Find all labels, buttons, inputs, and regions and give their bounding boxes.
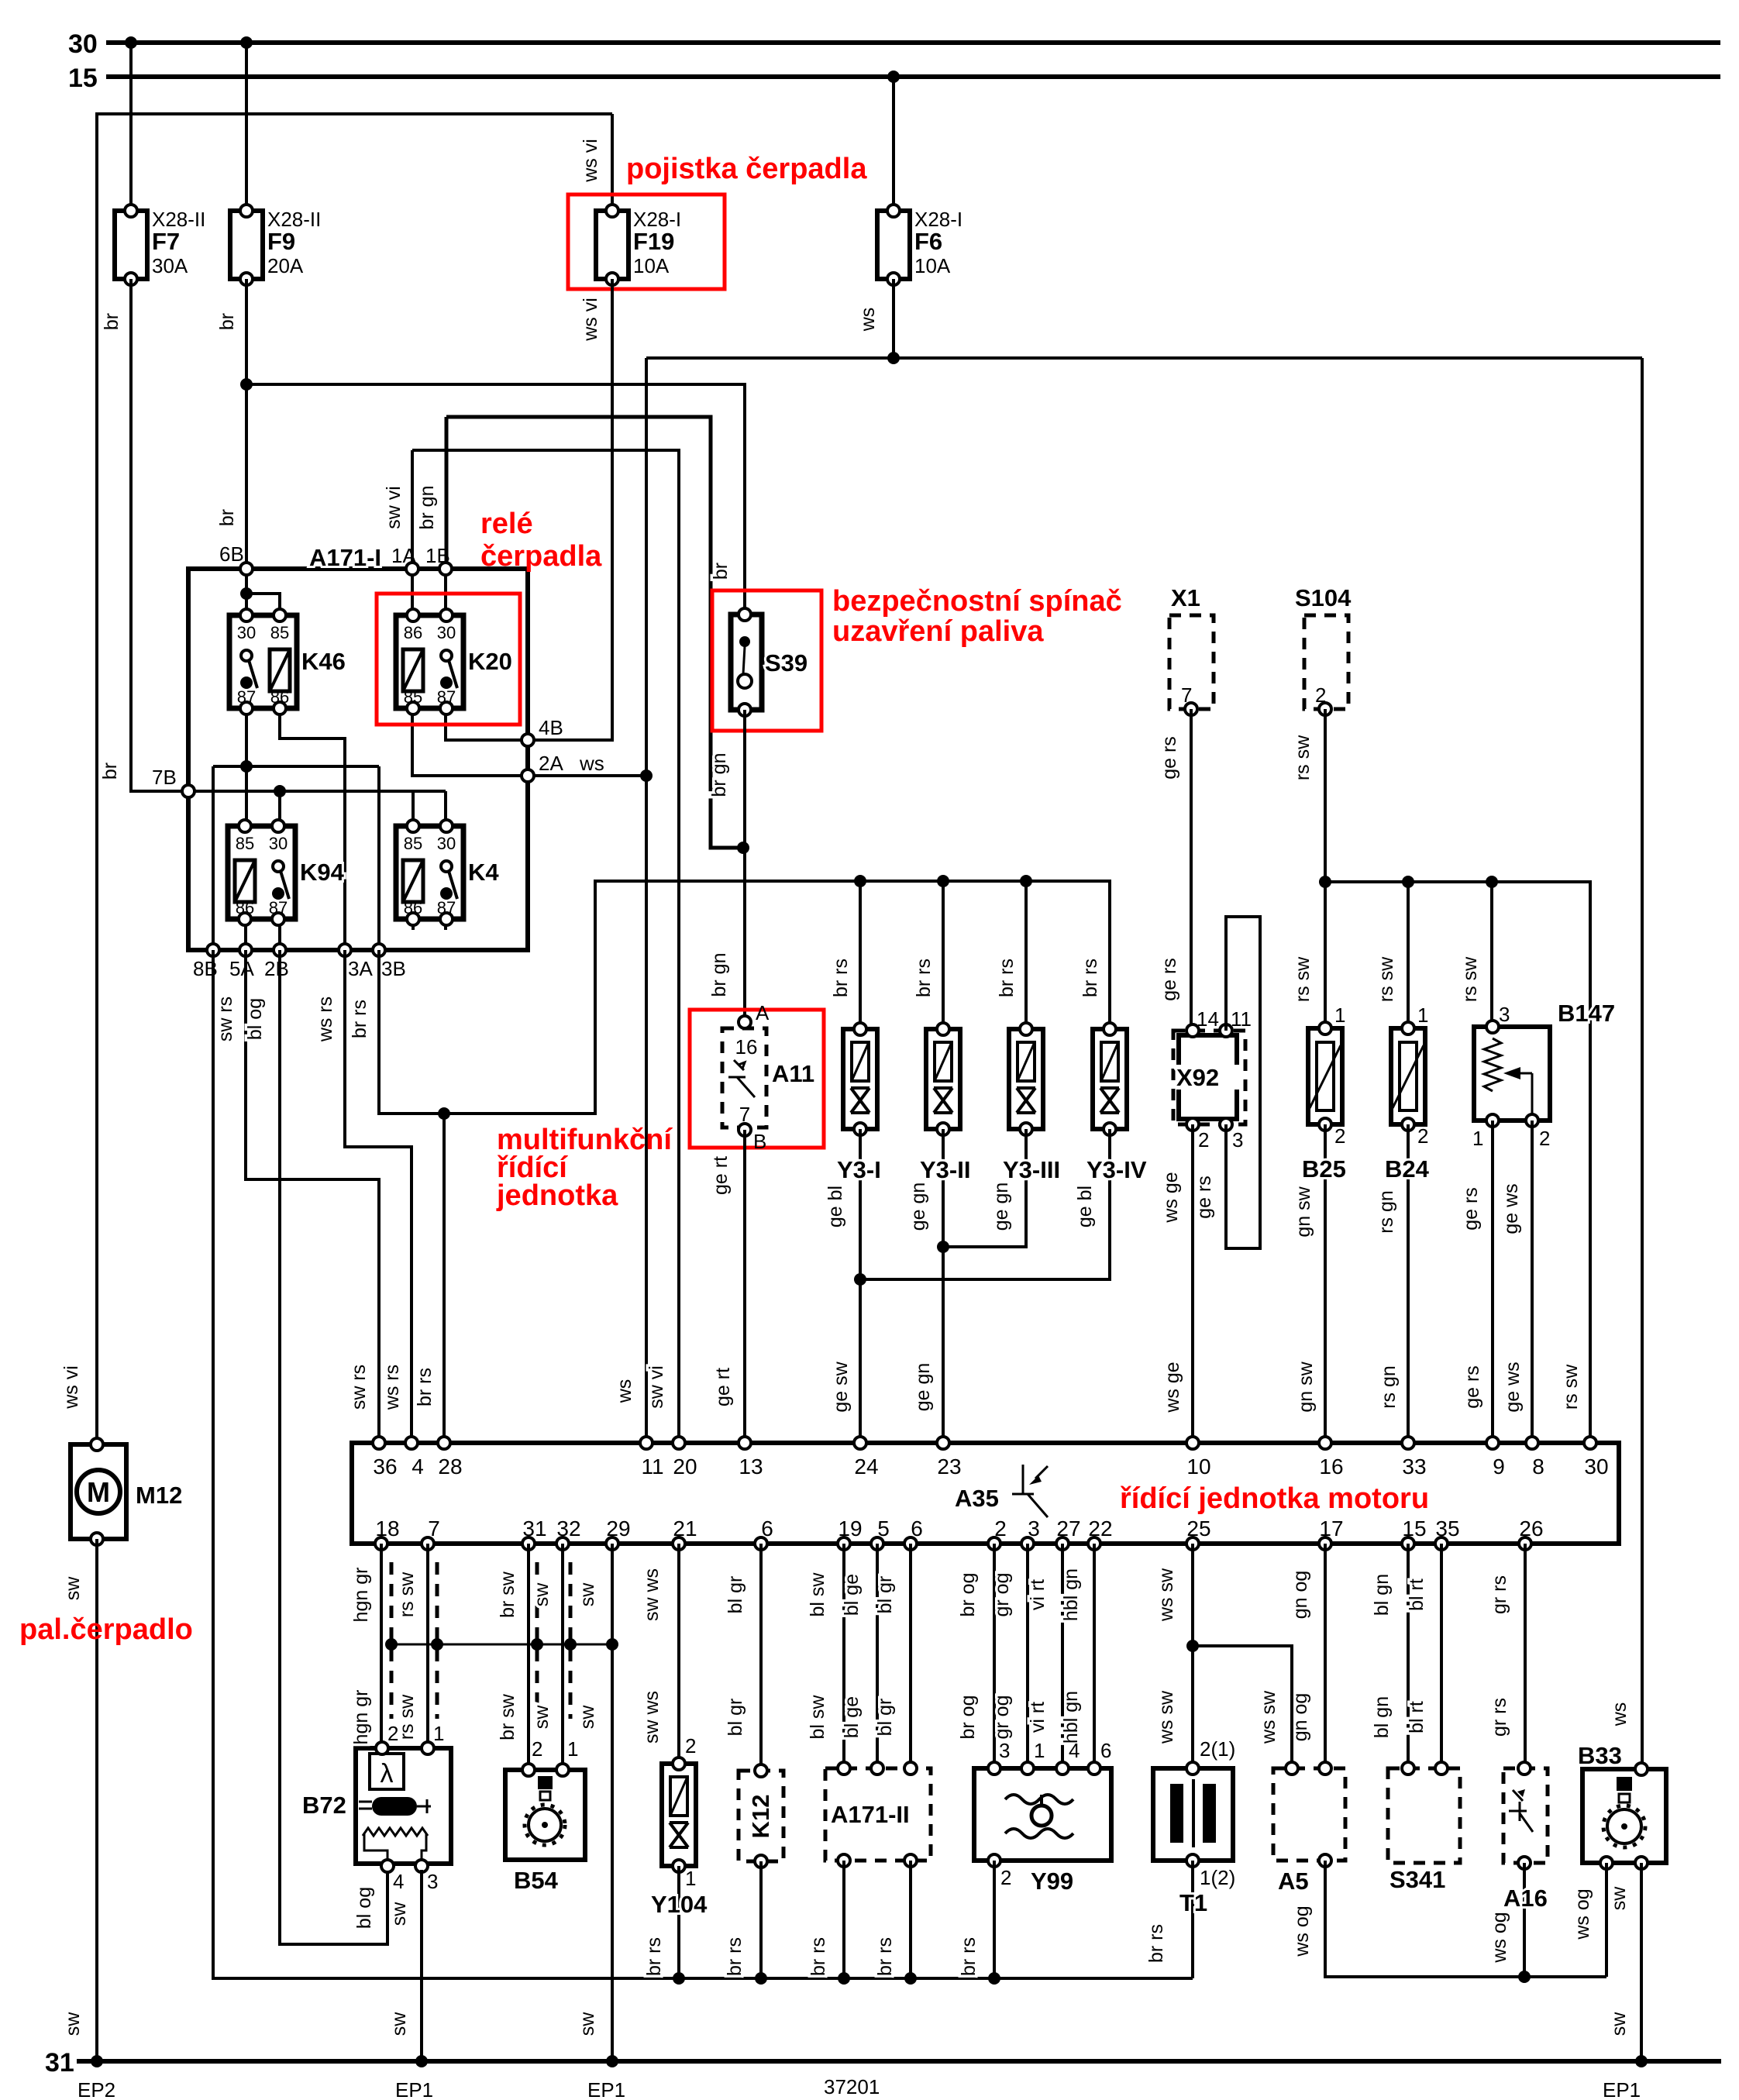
pin 2B: [274, 944, 286, 956]
svg-text:36: 36: [373, 1455, 397, 1479]
svg-text:3: 3: [427, 1870, 438, 1893]
svg-text:hgn gr: hgn gr: [350, 1690, 372, 1745]
svg-text:br rs: br rs: [830, 959, 852, 997]
svg-text:ge gn: ge gn: [907, 1183, 929, 1231]
wire ws sw branch to A5: [1193, 1646, 1292, 1764]
svg-text:3B: 3B: [381, 957, 406, 980]
wire ws vi F19 to M12: [97, 114, 612, 1444]
svg-text:br: br: [216, 509, 238, 526]
wire ge bl Y3-IV link: [860, 1129, 1110, 1279]
wire bl gr ECU6 to A171-II: [909, 1544, 912, 1764]
svg-text:2: 2: [685, 1734, 696, 1757]
svg-text:uzavření paliva: uzavření paliva: [832, 615, 1044, 648]
wire bl gr ECU6 to K12: [759, 1544, 763, 1766]
svg-text:ge bl: ge bl: [825, 1186, 846, 1227]
svg-text:br rs: br rs: [349, 1000, 370, 1038]
junction shield 18: [385, 1638, 398, 1651]
unit A5: [1273, 1768, 1345, 1861]
wire K94-86 to 5A: [244, 919, 247, 950]
svg-text:ws vi: ws vi: [580, 139, 601, 183]
svg-text:2B: 2B: [264, 957, 289, 980]
pin 18 ECU bottom: [375, 1537, 387, 1550]
pin 10 ECU top: [1186, 1437, 1199, 1449]
svg-text:rs gn: rs gn: [1376, 1190, 1397, 1234]
svg-text:gr rs: gr rs: [1489, 1698, 1510, 1737]
shield wire pin 18: [390, 1562, 394, 1719]
svg-text:ws: ws: [857, 308, 879, 332]
bus 30: [68, 29, 1720, 59]
wire rail15 to F6: [892, 77, 895, 211]
svg-text:6: 6: [911, 1516, 923, 1541]
svg-text:br rs: br rs: [414, 1368, 436, 1406]
svg-text:ws ge: ws ge: [1162, 1362, 1183, 1413]
pin 6B: [240, 563, 253, 575]
relay K46: [229, 609, 297, 714]
pin 23 ECU top: [937, 1437, 949, 1449]
svg-text:15: 15: [1402, 1516, 1426, 1541]
svg-text:8: 8: [1532, 1455, 1544, 1479]
svg-text:F6: F6: [914, 228, 942, 255]
svg-text:M: M: [87, 1476, 110, 1508]
svg-text:br rs: br rs: [913, 959, 935, 997]
wire br rs 3B distribution: [379, 881, 1110, 1114]
wire K46-86 to 3A: [280, 708, 345, 950]
svg-text:rs sw: rs sw: [1292, 956, 1314, 1002]
svg-text:sw: sw: [577, 2012, 598, 2036]
wire sw ws ECU21 to Y104: [677, 1544, 680, 1759]
svg-text:ge gn: ge gn: [912, 1363, 934, 1412]
wire br og ECU2 to Y99 pin 3: [993, 1544, 996, 1764]
svg-text:1A: 1A: [391, 544, 416, 567]
svg-text:ge ws: ge ws: [1502, 1362, 1524, 1412]
relay K4: [396, 820, 463, 925]
svg-text:B54: B54: [514, 1867, 559, 1894]
svg-text:ge rt: ge rt: [712, 1368, 734, 1406]
svg-text:rs sw: rs sw: [396, 1694, 418, 1740]
svg-text:Y3-IV: Y3-IV: [1086, 1156, 1147, 1183]
svg-text:8B: 8B: [193, 957, 218, 980]
svg-text:EP1: EP1: [395, 2078, 433, 2100]
svg-text:1: 1: [433, 1722, 444, 1745]
bus 31: [45, 2048, 1721, 2078]
pin 17 ECU bottom: [1319, 1537, 1331, 1550]
svg-text:16: 16: [1319, 1455, 1343, 1479]
wire br gn 1B to S39 node: [446, 417, 743, 848]
svg-text:9: 9: [1493, 1455, 1505, 1479]
pin 19 ECU bottom: [838, 1537, 850, 1550]
svg-text:bl gr: bl gr: [725, 1576, 746, 1614]
svg-text:sw rs: sw rs: [348, 1365, 370, 1410]
svg-text:ws rs: ws rs: [381, 1365, 403, 1410]
svg-text:20A: 20A: [267, 254, 304, 277]
valve Y104: [662, 1757, 696, 1872]
junction 7B/K94-30: [274, 785, 286, 797]
wire ws to ECU pin 11: [645, 358, 648, 1443]
svg-text:3: 3: [1232, 1128, 1243, 1152]
svg-text:bl ge: bl ge: [841, 1574, 863, 1616]
red frame bezpecnostni spinac: [712, 590, 821, 731]
wire ge rs X92 pin3 to pin11 loop: [1226, 917, 1260, 1248]
svg-text:1: 1: [1417, 1004, 1428, 1027]
junction ws sw branch: [1186, 1640, 1199, 1652]
svg-text:ge rs: ge rs: [1193, 1176, 1215, 1219]
wire ws rs 3A to ECU pin 4: [345, 950, 412, 1443]
svg-text:bl og: bl og: [244, 998, 266, 1040]
wire bl ge ECU5 to A171-II: [876, 1544, 879, 1764]
svg-text:rs sw: rs sw: [1459, 956, 1481, 1002]
injector Y3-II: [926, 1023, 960, 1135]
connector X1: [1169, 615, 1214, 709]
svg-text:X1: X1: [1171, 584, 1200, 611]
svg-text:30: 30: [1584, 1455, 1608, 1479]
pin 5A: [239, 944, 252, 956]
svg-text:ws og: ws og: [1572, 1888, 1593, 1940]
svg-text:ws rs: ws rs: [315, 997, 336, 1042]
svg-text:A5: A5: [1278, 1868, 1309, 1895]
svg-text:sw rs: sw rs: [215, 997, 236, 1041]
svg-text:37201: 37201: [824, 2075, 880, 2098]
pin 4 ECU top: [405, 1437, 418, 1449]
svg-text:31: 31: [45, 2048, 74, 2078]
wire br rs to Y3-II: [942, 881, 945, 1029]
junction Y3-II/Y3-III: [937, 1241, 949, 1253]
pin 7 ECU bottom: [422, 1537, 434, 1550]
pin 6 ECU bottom: [755, 1537, 767, 1550]
sensor B147: [1474, 1021, 1550, 1127]
connector S104: [1304, 615, 1348, 709]
pin 25 ECU bottom: [1186, 1537, 1199, 1550]
svg-text:λ: λ: [381, 1759, 394, 1788]
svg-text:bl gn: bl gn: [1371, 1696, 1393, 1738]
svg-text:ws: ws: [1609, 1702, 1631, 1727]
pin 30 ECU top: [1584, 1437, 1596, 1449]
svg-text:relé: relé: [480, 508, 533, 540]
svg-text:br og: br og: [957, 1573, 979, 1617]
svg-text:bl gr: bl gr: [874, 1576, 896, 1614]
stub K4-86: [412, 919, 415, 930]
svg-text:sw: sw: [531, 1582, 553, 1607]
junction br rs A171-II left: [838, 1972, 850, 1985]
svg-text:32: 32: [556, 1516, 580, 1541]
svg-text:rs sw: rs sw: [1292, 735, 1314, 780]
wire br rs Y99 to ground bus: [993, 1861, 996, 1978]
junction shield 7: [431, 1638, 443, 1651]
shield collector bus: [391, 1644, 612, 1646]
svg-text:35: 35: [1435, 1516, 1459, 1541]
wire rs sw S104 to B25: [1324, 709, 1327, 1028]
svg-text:S341: S341: [1389, 1866, 1445, 1893]
svg-text:bl gn: bl gn: [1371, 1574, 1393, 1616]
svg-text:T1: T1: [1179, 1889, 1207, 1916]
svg-text:bezpečnostní spínač: bezpečnostní spínač: [832, 585, 1122, 618]
wire sw ECU29 to bus 31: [611, 1544, 614, 2061]
wire gr rs ECU26 to A16: [1524, 1544, 1527, 1764]
svg-text:br rs: br rs: [1080, 959, 1101, 997]
svg-text:gn og: gn og: [1290, 1571, 1311, 1620]
svg-text:F7: F7: [152, 228, 180, 255]
svg-text:30: 30: [437, 623, 456, 642]
junction br rs Y99: [988, 1972, 1000, 1985]
svg-text:S39: S39: [765, 649, 808, 676]
svg-text:13: 13: [739, 1455, 763, 1479]
svg-text:11: 11: [641, 1455, 663, 1479]
wire F19 ws vi to pin 4B: [531, 279, 612, 740]
fuse F9 20A: [230, 205, 263, 285]
wire 1A up: [411, 450, 414, 569]
junction br rs Y104: [673, 1972, 685, 1985]
svg-text:30: 30: [237, 623, 256, 642]
pin 24 ECU top: [854, 1437, 866, 1449]
svg-text:EP1: EP1: [587, 2078, 625, 2100]
svg-text:86: 86: [404, 898, 422, 917]
svg-text:br: br: [99, 763, 121, 780]
svg-text:X92: X92: [1176, 1064, 1219, 1091]
fuse F19 10A: [596, 205, 628, 285]
svg-text:ge rs: ge rs: [1462, 1365, 1483, 1409]
wire 1A to K20-86: [411, 569, 414, 615]
unit A171-II: [825, 1768, 931, 1861]
junction shield 31: [531, 1638, 543, 1651]
wire bl og 2B to B72 pin 4: [280, 950, 387, 1944]
svg-text:br rs: br rs: [996, 959, 1018, 997]
wire rs sw to B24: [1407, 882, 1410, 1028]
svg-text:2: 2: [994, 1516, 1007, 1541]
ignition coil T1: [1153, 1762, 1233, 1867]
junction ws og A16: [1518, 1971, 1531, 1983]
svg-text:1: 1: [685, 1867, 696, 1890]
svg-text:ws: ws: [614, 1379, 635, 1404]
svg-text:gn sw: gn sw: [1293, 1186, 1314, 1237]
svg-text:ge rs: ge rs: [1159, 958, 1180, 1001]
svg-text:20: 20: [673, 1455, 697, 1479]
junction F9/S39 feed: [240, 378, 253, 391]
wire 8B to ground bus br rs: [213, 950, 1193, 1978]
svg-text:rs sw: rs sw: [1560, 1364, 1582, 1410]
svg-text:1B: 1B: [425, 544, 450, 567]
junction 6B split: [240, 587, 253, 600]
svg-text:bl rt: bl rt: [1406, 1701, 1427, 1733]
svg-text:br gn: br gn: [708, 953, 730, 997]
svg-text:B: B: [753, 1130, 766, 1153]
wire K20-87 via 4B: [446, 708, 612, 740]
svg-text:A35: A35: [955, 1485, 999, 1512]
svg-text:86: 86: [236, 898, 254, 917]
svg-text:ge ws: ge ws: [1500, 1183, 1522, 1234]
red frame pojistka cerpadla: [568, 195, 725, 289]
svg-text:2: 2: [1315, 683, 1326, 707]
svg-text:jednotka: jednotka: [496, 1179, 618, 1212]
wire br sw ECU31 to B54 pin 2: [527, 1544, 530, 1765]
junction F6/ws bus: [887, 352, 900, 364]
wire vi rt ECU27 to Y99 pin 4: [1061, 1544, 1064, 1764]
junction rs sw B24: [1402, 876, 1414, 888]
injector Y3-I: [843, 1023, 877, 1135]
wire br rs K12 to ground bus: [759, 1861, 763, 1978]
svg-text:bl sw: bl sw: [807, 1695, 828, 1740]
svg-text:87: 87: [437, 898, 456, 917]
wire rail30 to F9: [245, 43, 248, 211]
wire 6B to K46-30: [245, 569, 248, 615]
sensor B25: [1308, 1022, 1342, 1131]
pin 35 ECU bottom: [1435, 1537, 1448, 1550]
wire sw B33 to bus 31: [1640, 1863, 1643, 2061]
wire ge gn Y3-III link: [943, 1129, 1026, 1247]
svg-text:rs gn: rs gn: [1378, 1365, 1400, 1409]
junction rs sw B147: [1486, 876, 1498, 888]
pin 3A: [339, 944, 351, 956]
svg-text:B147: B147: [1558, 1000, 1615, 1027]
pin 15 ECU bottom: [1402, 1537, 1414, 1550]
svg-text:sw ws: sw ws: [641, 1568, 663, 1621]
svg-text:gr og: gr og: [991, 1573, 1013, 1617]
wire gr og ECU3 to Y99 pin 1: [1026, 1544, 1029, 1764]
wire br rs Y104 to ground bus: [677, 1866, 680, 1978]
unit A16: [1503, 1762, 1548, 1869]
svg-text:gn sw: gn sw: [1295, 1361, 1317, 1412]
svg-text:26: 26: [1519, 1516, 1543, 1541]
wire K46-87 to K94-85: [245, 708, 248, 826]
pin 1B: [439, 563, 452, 575]
svg-text:4: 4: [393, 1870, 404, 1893]
svg-text:ws sw: ws sw: [1155, 1568, 1177, 1622]
svg-text:ge rt: ge rt: [710, 1156, 732, 1195]
actuator Y99: [974, 1762, 1111, 1867]
wire br rs to Y3-I: [859, 881, 862, 1029]
svg-text:4B: 4B: [539, 716, 563, 739]
svg-text:7: 7: [739, 1103, 750, 1126]
svg-text:A171-I: A171-I: [309, 544, 381, 571]
svg-text:A16: A16: [1503, 1885, 1548, 1912]
wire K20-85 via 2A ws: [412, 708, 646, 776]
wire sw M12 to bus 31: [95, 1539, 98, 2061]
svg-text:br sw: br sw: [497, 1571, 518, 1618]
wire br F9 to S39: [246, 384, 745, 615]
svg-text:rs sw: rs sw: [1376, 956, 1397, 1002]
junction EP1 B33: [1635, 2055, 1648, 2067]
svg-text:br: br: [710, 563, 732, 580]
svg-text:B72: B72: [302, 1792, 346, 1819]
junction shield collector: [606, 1638, 618, 1651]
wire rs sw ECU7 to B72 pin 1: [426, 1544, 429, 1748]
svg-text:86: 86: [270, 687, 289, 707]
wire br rs A171-II left to ground bus: [842, 1861, 845, 1978]
svg-text:6: 6: [1100, 1739, 1111, 1762]
svg-text:bl gr: bl gr: [725, 1699, 746, 1737]
wire ws distribution: [646, 356, 1642, 360]
svg-text:bl og: bl og: [353, 1887, 375, 1929]
injector Y3-IV: [1093, 1023, 1127, 1135]
shield wire pin 7: [436, 1562, 439, 1719]
svg-text:22: 22: [1088, 1516, 1112, 1541]
wire bl rt ECU35 to S341: [1440, 1544, 1443, 1764]
svg-text:řídící jednotka motoru: řídící jednotka motoru: [1120, 1482, 1429, 1515]
wire hgn gr ECU18 to B72 pin 2: [380, 1544, 383, 1748]
svg-text:6B: 6B: [219, 542, 244, 566]
pin 2 ECU bottom: [988, 1537, 1000, 1550]
svg-text:2: 2: [1198, 1128, 1209, 1152]
svg-text:86: 86: [404, 623, 422, 642]
svg-text:br gn: br gn: [416, 486, 438, 530]
wire 7B feed: [188, 790, 446, 793]
svg-text:2: 2: [1539, 1127, 1550, 1150]
svg-text:ws: ws: [579, 752, 604, 775]
connector X92: [1173, 1024, 1245, 1131]
junction EP1 sw: [606, 2055, 618, 2067]
svg-text:br rs: br rs: [643, 1937, 665, 1976]
junction br rs Y3-I: [854, 875, 866, 887]
svg-text:2: 2: [387, 1722, 398, 1745]
wire br rs A171-II right to ground bus: [909, 1861, 912, 1978]
relay K20: [396, 609, 463, 714]
svg-text:br rs: br rs: [808, 1937, 829, 1976]
svg-text:87: 87: [237, 687, 256, 707]
svg-text:K20: K20: [468, 648, 512, 675]
junction M12 EP2: [91, 2055, 103, 2067]
svg-text:A171-II: A171-II: [831, 1801, 910, 1828]
svg-text:1(2): 1(2): [1200, 1866, 1235, 1889]
wire ws og A5 to B33: [1325, 1861, 1606, 1977]
svg-text:br rs: br rs: [724, 1937, 746, 1976]
wire rail30 to F7: [129, 43, 133, 211]
svg-text:sw: sw: [388, 2012, 410, 2036]
svg-text:4: 4: [1069, 1739, 1080, 1762]
junction ws 2A: [640, 769, 653, 782]
svg-text:27: 27: [1056, 1516, 1080, 1541]
wire sw vi 1A to ECU pin 20: [412, 450, 679, 1443]
wire ws sw ECU25 to T1: [1191, 1544, 1194, 1764]
svg-text:br og: br og: [957, 1695, 979, 1740]
wire to K4-30: [444, 791, 447, 826]
junction br rs Y3-II: [937, 875, 949, 887]
svg-text:br gn: br gn: [708, 753, 730, 797]
svg-text:Y104: Y104: [651, 1891, 708, 1918]
ECU A35 ridici jednotka motoru: [352, 1443, 1619, 1544]
svg-text:11: 11: [1231, 1007, 1252, 1031]
svg-text:1: 1: [1472, 1127, 1483, 1150]
svg-text:18: 18: [375, 1516, 399, 1541]
pin 22 ECU bottom: [1088, 1537, 1100, 1550]
svg-text:28: 28: [438, 1455, 462, 1479]
svg-text:2A: 2A: [539, 752, 563, 775]
wire 6B to K46-85: [246, 594, 280, 615]
wire K46-87 to 8B and 3B: [213, 765, 379, 768]
switch S39: [731, 608, 762, 716]
wire ge rt A11-B to ECU pin 13: [743, 1130, 746, 1443]
svg-text:23: 23: [937, 1455, 961, 1479]
wire ge rs B147 to ECU pin 9: [1491, 1121, 1494, 1443]
svg-text:gn og: gn og: [1290, 1693, 1311, 1742]
svg-text:ge bl: ge bl: [1074, 1186, 1096, 1227]
wire bl gn ECU15 to S341: [1407, 1544, 1410, 1764]
wire down to 3B: [377, 766, 381, 950]
svg-text:85: 85: [270, 623, 289, 642]
svg-text:sw: sw: [577, 1582, 598, 1607]
svg-text:hgn gr: hgn gr: [350, 1568, 372, 1623]
svg-text:4: 4: [412, 1455, 424, 1479]
svg-text:ws og: ws og: [1291, 1905, 1313, 1957]
svg-text:čerpadla: čerpadla: [480, 540, 602, 573]
svg-text:ws sw: ws sw: [1258, 1690, 1279, 1744]
svg-text:pojistka čerpadla: pojistka čerpadla: [626, 153, 867, 185]
svg-text:B25: B25: [1302, 1155, 1346, 1183]
wire rs sw to B147 pin 3: [1490, 882, 1493, 1027]
junction S39/K20-30 node: [737, 842, 749, 854]
svg-text:gr rs: gr rs: [1489, 1575, 1510, 1614]
motor M12 pal.cerpadlo: [71, 1438, 126, 1545]
svg-text:10A: 10A: [633, 254, 670, 277]
junction br rs K12: [755, 1972, 767, 1985]
svg-text:br sw: br sw: [497, 1693, 518, 1740]
